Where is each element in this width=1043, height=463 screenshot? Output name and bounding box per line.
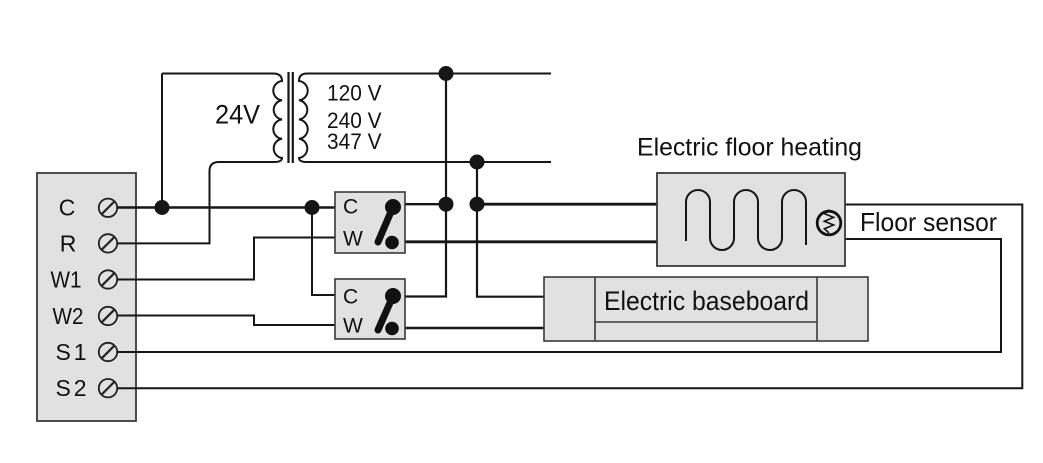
wire from top line down to relay 2 common [405, 74, 446, 297]
relay K1 switch lever [385, 199, 401, 249]
wire from bottom line down to baseboard [477, 162, 545, 297]
svg-text:C: C [343, 286, 358, 309]
svg-text:24V: 24V [215, 100, 260, 130]
wire W1 terminal to relay1 W [117, 238, 335, 280]
transformer core [287, 72, 289, 163]
svg-text:R: R [60, 230, 77, 256]
floor sensor thermistor [817, 211, 841, 235]
wire W2 terminal to relay2 W [117, 316, 335, 326]
node on C wire (riser junction) [155, 200, 170, 215]
baseboard inner shelf line [595, 321, 817, 323]
node on line wire bottom (junction to loads) [470, 155, 485, 170]
electric floor heating box [657, 173, 845, 266]
transformer T1 secondary winding with line wires [299, 74, 551, 163]
svg-text:Electric floor heating: Electric floor heating [637, 134, 862, 162]
screw terminal W2 [99, 307, 117, 325]
wire riser from C junction to transformer primary top [161, 74, 163, 208]
wire line branch to floor heating top [477, 203, 658, 206]
node load line branch [470, 197, 485, 212]
screw terminal W1 [99, 270, 117, 288]
svg-text:W: W [343, 315, 363, 338]
svg-text:Electric baseboard: Electric baseboard [604, 286, 809, 316]
svg-text:347 V: 347 V [327, 129, 382, 154]
node on line wire top (junction to relays common) [439, 66, 454, 81]
relay K2 box [335, 279, 405, 339]
wire relay2 W to baseboard bottom [405, 327, 545, 330]
svg-text:C: C [343, 195, 358, 218]
electric baseboard box [544, 277, 868, 341]
svg-text:C: C [59, 195, 76, 221]
svg-text:120 V: 120 V [327, 81, 382, 106]
svg-text:W2: W2 [53, 303, 84, 329]
node on C wire (relay2 branch junction) [305, 200, 320, 215]
wire relay1 common to line junction [405, 203, 446, 205]
screw terminal C [99, 199, 117, 217]
wire C branch down to relay2 common [312, 208, 335, 296]
heating element serpentine [686, 190, 806, 250]
transformer T1 primary winding and wire to R terminal [117, 74, 282, 244]
svg-text:Floor sensor: Floor sensor [860, 207, 997, 237]
thermostat terminal block [37, 173, 136, 421]
svg-text:W: W [343, 228, 363, 251]
baseboard right divider [816, 277, 818, 341]
baseboard left divider [594, 277, 596, 341]
relay K2 switch lever [385, 288, 401, 335]
wire C terminal to relay 1 [117, 206, 335, 208]
relay K1 box [335, 192, 405, 253]
screw terminal R [99, 234, 117, 252]
wire S2 terminal to floor sensor [117, 205, 1022, 389]
svg-text:W1: W1 [51, 266, 82, 292]
screw terminal S2 [99, 379, 117, 397]
screw terminal S1 [99, 343, 117, 361]
wire S1 terminal to floor sensor [117, 239, 1001, 352]
node relay1 common / line [439, 197, 454, 212]
wire relay1 W to floor heating bottom [405, 240, 658, 243]
